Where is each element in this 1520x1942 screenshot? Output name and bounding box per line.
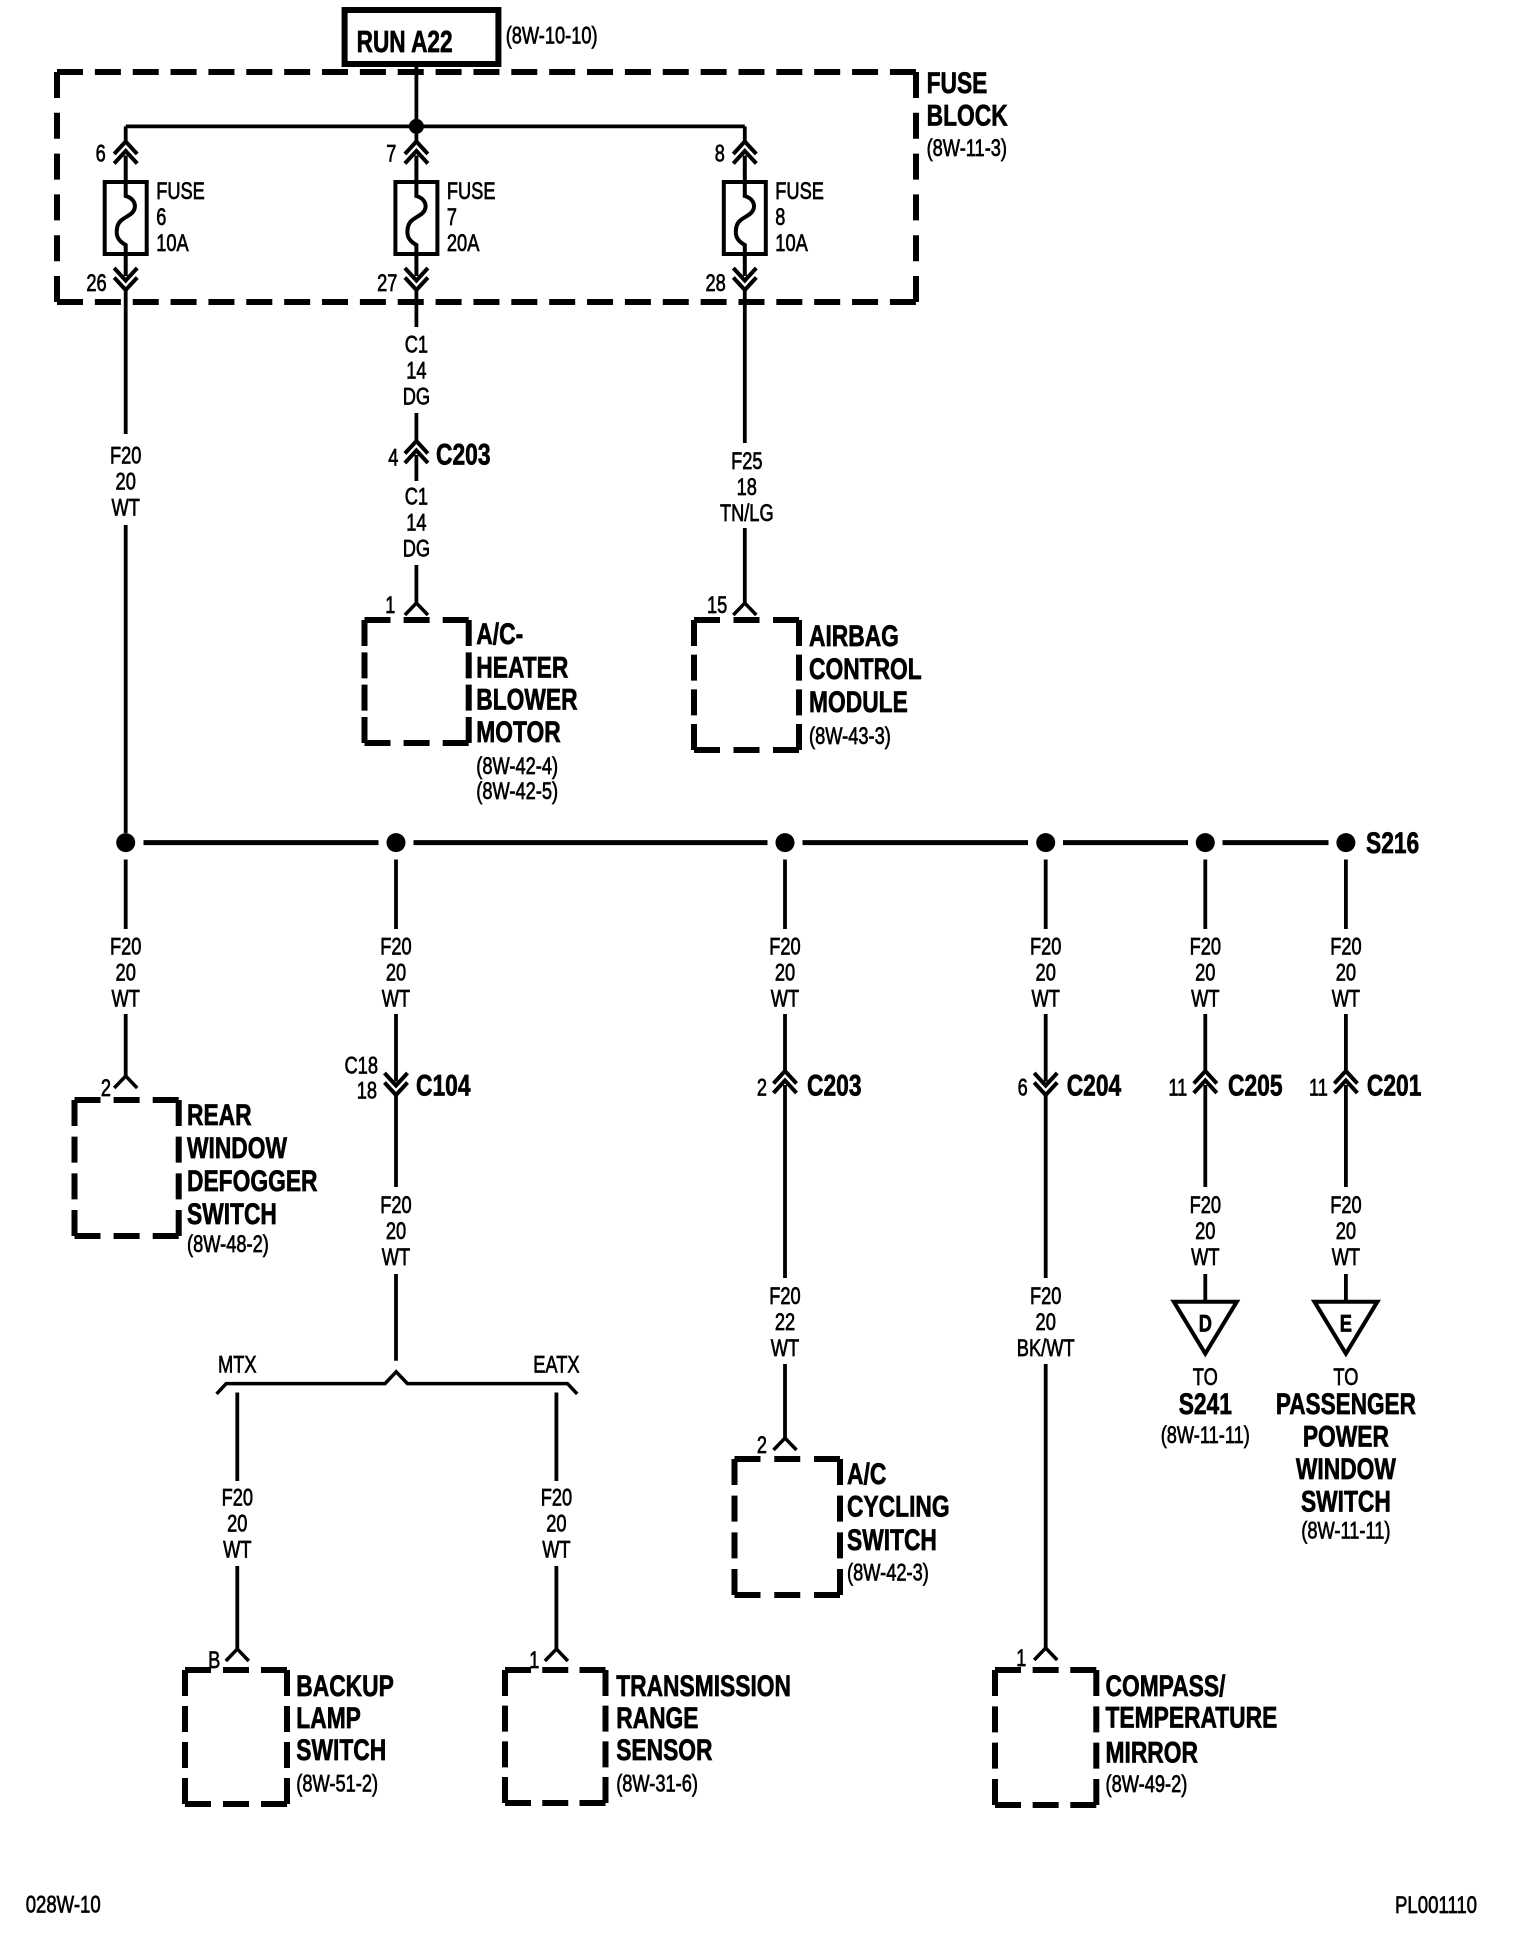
destination label TO S241 — [1161, 1364, 1250, 1449]
svg-text:20: 20 — [1036, 959, 1056, 986]
off-page connector arrow D — [1174, 1302, 1237, 1354]
connector C204 pin 6 — [1018, 1073, 1058, 1102]
junction of RUN A22 feed with internal bus — [409, 119, 424, 134]
splice S216 bus wire — [144, 840, 1329, 845]
svg-text:WT: WT — [112, 494, 141, 521]
wire label F20 20 WT (branch to C201) — [1330, 933, 1361, 1012]
svg-text:(8W-31-6): (8W-31-6) — [616, 1771, 698, 1798]
svg-text:20A: 20A — [447, 230, 480, 257]
svg-text:BACKUP: BACKUP — [296, 1670, 394, 1703]
svg-text:F25: F25 — [731, 448, 762, 475]
svg-text:28: 28 — [706, 270, 726, 297]
svg-text:20: 20 — [1336, 1218, 1356, 1245]
svg-text:D: D — [1199, 1310, 1212, 1337]
svg-text:20: 20 — [1195, 1218, 1215, 1245]
fuse F7 value label — [447, 178, 496, 257]
svg-text:F20: F20 — [1030, 1283, 1061, 1310]
svg-text:E: E — [1340, 1310, 1352, 1337]
connector C203 pin 2 (lower) — [757, 1071, 797, 1102]
wire to transmission range sensor pin 1 — [555, 1566, 559, 1649]
svg-text:C18: C18 — [345, 1053, 379, 1080]
svg-text:11: 11 — [1309, 1075, 1328, 1102]
svg-text:F20: F20 — [110, 442, 141, 469]
svg-text:14: 14 — [406, 510, 426, 537]
svg-text:6: 6 — [96, 141, 106, 168]
reference (8W-10-10) for RUN A22 — [506, 23, 598, 50]
fuse block pin 26 connector — [86, 268, 137, 297]
splice junction dot 4 on S216 — [1036, 833, 1055, 852]
svg-text:1: 1 — [385, 592, 395, 619]
connector name C104 — [416, 1069, 471, 1102]
svg-text:2: 2 — [757, 1075, 767, 1102]
connector name C203 — [436, 439, 491, 472]
backup lamp switch pin B connector — [208, 1647, 249, 1674]
rear window defogger switch label — [187, 1099, 318, 1258]
svg-text:PASSENGER: PASSENGER — [1276, 1388, 1416, 1421]
svg-text:PL001110: PL001110 — [1395, 1892, 1477, 1919]
svg-text:(8W-48-2): (8W-48-2) — [187, 1231, 269, 1258]
svg-text:WT: WT — [382, 985, 411, 1012]
svg-text:2: 2 — [101, 1075, 111, 1102]
svg-text:20: 20 — [386, 959, 406, 986]
svg-text:WT: WT — [1191, 1244, 1220, 1271]
splice junction dot 5 on S216 — [1196, 833, 1215, 852]
svg-text:26: 26 — [86, 270, 106, 297]
wire branch to C104 from S216 — [394, 860, 398, 930]
svg-text:6: 6 — [156, 204, 166, 231]
svg-text:F20: F20 — [1030, 933, 1061, 960]
svg-text:WT: WT — [1332, 985, 1361, 1012]
svg-text:FUSE: FUSE — [156, 178, 205, 205]
svg-text:DG: DG — [403, 384, 430, 411]
svg-text:20: 20 — [1336, 959, 1356, 986]
component A/C cycling switch (dashed box) — [735, 1459, 841, 1595]
svg-text:BK/WT: BK/WT — [1017, 1335, 1075, 1362]
svg-text:7: 7 — [386, 141, 396, 168]
backup lamp switch label — [296, 1670, 394, 1798]
svg-text:WT: WT — [382, 1244, 411, 1271]
svg-text:WINDOW: WINDOW — [1296, 1453, 1397, 1486]
connector C203 pin 4 — [388, 441, 428, 472]
wire below C203 (F20 22 WT) — [783, 1085, 787, 1278]
svg-text:REAR: REAR — [187, 1099, 252, 1132]
svg-text:AIRBAG: AIRBAG — [809, 620, 899, 653]
svg-text:SWITCH: SWITCH — [296, 1734, 386, 1767]
svg-text:F20: F20 — [541, 1484, 572, 1511]
svg-text:(8W-49-2): (8W-49-2) — [1106, 1771, 1188, 1798]
svg-text:F20: F20 — [769, 933, 800, 960]
svg-text:SWITCH: SWITCH — [187, 1198, 277, 1231]
svg-text:RANGE: RANGE — [616, 1702, 698, 1735]
svg-text:MIRROR: MIRROR — [1106, 1736, 1199, 1769]
svg-text:WINDOW: WINDOW — [187, 1132, 288, 1165]
compass mirror pin 1 connector — [1016, 1645, 1057, 1672]
svg-text:WT: WT — [1032, 985, 1061, 1012]
svg-text:WT: WT — [1332, 1244, 1361, 1271]
wire below C201 (F20 20 WT) — [1344, 1085, 1348, 1187]
component airbag control module (dashed box) — [694, 620, 799, 750]
wire label F20 20 WT (branch to C204) — [1030, 933, 1061, 1012]
airbag control module label — [809, 620, 922, 750]
svg-text:TN/LG: TN/LG — [720, 500, 774, 527]
svg-text:F20: F20 — [1190, 1192, 1221, 1219]
compass/temperature mirror label — [1106, 1670, 1278, 1798]
wire fuse 6 output (F20 20 WT) upper segment — [124, 290, 128, 434]
off-page connector arrow E — [1314, 1302, 1377, 1354]
fuse F7 (20A) — [395, 156, 437, 277]
wire F25 to airbag control module pin 15 — [743, 528, 747, 603]
svg-text:(8W-11-11): (8W-11-11) — [1301, 1518, 1390, 1545]
fuse F8 value label — [775, 178, 824, 257]
svg-text:18: 18 — [357, 1078, 377, 1105]
wire into connector C104 — [394, 1014, 398, 1082]
splice junction dot 2 on S216 — [387, 833, 406, 852]
label EATX — [533, 1352, 579, 1379]
svg-text:(8W-42-5): (8W-42-5) — [476, 778, 558, 805]
connector C201 pin 11 — [1309, 1071, 1357, 1102]
wire branch to C201 from S216 — [1344, 860, 1348, 930]
wire to A/C cycling switch pin 2 — [783, 1364, 787, 1438]
svg-text:C204: C204 — [1067, 1069, 1122, 1102]
svg-text:A/C: A/C — [847, 1458, 886, 1491]
svg-text:20: 20 — [116, 468, 136, 495]
wire branch to C203 from S216 — [783, 860, 787, 930]
svg-text:20: 20 — [775, 959, 795, 986]
fuse block pin 28 connector — [706, 268, 757, 297]
wire label F20 20 WT (branch to rear window defogger switch) — [110, 933, 141, 1012]
svg-text:MODULE: MODULE — [809, 686, 908, 719]
internal bus wire inside fuse block — [126, 125, 745, 129]
fuse block name label — [927, 67, 1008, 162]
svg-text:F20: F20 — [222, 1484, 253, 1511]
wire label F20 20 WT (branch to C205) — [1190, 933, 1221, 1012]
svg-text:SENSOR: SENSOR — [616, 1734, 713, 1767]
wire C1 to blower motor pin 1 — [414, 455, 418, 603]
svg-text:A/C-: A/C- — [476, 618, 523, 651]
svg-text:FUSE: FUSE — [927, 67, 988, 100]
component transmission range sensor (dashed box) — [505, 1670, 606, 1803]
svg-text:F20: F20 — [380, 933, 411, 960]
svg-text:27: 27 — [377, 270, 397, 297]
svg-text:DG: DG — [403, 536, 430, 563]
svg-text:6: 6 — [1018, 1075, 1028, 1102]
wire label F20 20 WT (transmission range sensor) — [541, 1484, 572, 1563]
svg-text:TEMPERATURE: TEMPERATURE — [1106, 1701, 1278, 1734]
svg-text:18: 18 — [737, 474, 757, 501]
svg-text:HEATER: HEATER — [476, 652, 568, 685]
splice junction dot 3 on S216 — [776, 833, 795, 852]
svg-text:RUN A22: RUN A22 — [357, 24, 453, 59]
svg-text:20: 20 — [116, 959, 136, 986]
wire fuse 8 output upper segment — [743, 290, 747, 443]
wire label F20 20 BK/WT — [1017, 1283, 1075, 1362]
svg-text:20: 20 — [386, 1218, 406, 1245]
svg-text:F20: F20 — [769, 1283, 800, 1310]
fuse block pin 7 connector — [386, 126, 428, 167]
fuse block pin 8 connector — [715, 126, 757, 167]
destination label TO PASSENGER POWER WINDOW SWITCH — [1276, 1364, 1416, 1545]
svg-text:20: 20 — [1195, 959, 1215, 986]
wire branch to rear window defogger switch from S216 — [124, 860, 128, 930]
svg-text:7: 7 — [447, 204, 457, 231]
drawing number PL001110 — [1395, 1892, 1477, 1919]
fuse block pin 27 connector — [377, 268, 428, 297]
wire down to MTX/EATX split — [394, 1274, 398, 1361]
svg-text:14: 14 — [406, 358, 426, 385]
svg-text:MTX: MTX — [218, 1352, 257, 1379]
svg-text:POWER: POWER — [1303, 1420, 1389, 1453]
splice junction dot 6 on S216 — [1336, 833, 1355, 852]
svg-text:WT: WT — [223, 1536, 252, 1563]
svg-text:F20: F20 — [380, 1192, 411, 1219]
wire branch to C205 from S216 — [1203, 860, 1207, 930]
svg-text:20: 20 — [227, 1510, 247, 1537]
transmission range sensor pin 1 connector — [529, 1647, 568, 1674]
svg-text:BLOCK: BLOCK — [927, 100, 1008, 133]
svg-text:WT: WT — [771, 985, 800, 1012]
wire label F20 20 WT (backup lamp switch) — [222, 1484, 253, 1563]
svg-text:FUSE: FUSE — [775, 178, 824, 205]
svg-text:CYCLING: CYCLING — [847, 1491, 950, 1524]
svg-text:11: 11 — [1168, 1075, 1187, 1102]
svg-text:10A: 10A — [156, 230, 189, 257]
svg-text:WT: WT — [771, 1335, 800, 1362]
svg-text:SWITCH: SWITCH — [1301, 1485, 1391, 1518]
A/C cycling switch pin 2 connector — [757, 1432, 797, 1459]
connector C104 pin C18/18 — [345, 1053, 408, 1105]
wire to compass/temperature mirror pin 1 — [1044, 1364, 1048, 1648]
wire label F20 22 WT — [769, 1283, 800, 1362]
svg-text:WT: WT — [1191, 985, 1220, 1012]
svg-text:20: 20 — [546, 1510, 566, 1537]
fuse F6 value label — [156, 178, 205, 257]
airbag control module pin 15 connector — [707, 592, 756, 619]
svg-text:F20: F20 — [1330, 1192, 1361, 1219]
blower motor pin 1 connector — [385, 592, 428, 619]
svg-text:TRANSMISSION: TRANSMISSION — [616, 1670, 791, 1703]
wire label F20 20 WT (below C201) — [1330, 1192, 1361, 1271]
connector name C201 — [1367, 1069, 1422, 1102]
wire below C204 (F20 20 BK/WT) — [1044, 1095, 1048, 1278]
svg-text:20: 20 — [1036, 1309, 1056, 1336]
svg-text:C201: C201 — [1367, 1069, 1422, 1102]
svg-text:F20: F20 — [1330, 933, 1361, 960]
svg-text:(8W-10-10): (8W-10-10) — [506, 23, 598, 50]
A/C-heater blower motor label — [476, 618, 578, 805]
label MTX — [218, 1352, 257, 1379]
wire label C1 14 DG (below C203) — [403, 484, 430, 563]
svg-text:(8W-51-2): (8W-51-2) — [296, 1771, 378, 1798]
svg-text:028W-10: 028W-10 — [26, 1892, 101, 1919]
svg-text:EATX: EATX — [533, 1352, 579, 1379]
wire label F20 20 WT (branch to C104) — [380, 933, 411, 1012]
svg-text:COMPASS/: COMPASS/ — [1106, 1670, 1226, 1703]
fuse block enclosure (dashed) — [57, 72, 916, 302]
svg-text:C205: C205 — [1228, 1069, 1283, 1102]
svg-text:FUSE: FUSE — [447, 178, 496, 205]
A/C cycling switch label — [847, 1458, 950, 1587]
fuse F6 (10A) — [105, 156, 147, 277]
svg-text:(8W-11-3): (8W-11-3) — [927, 135, 1007, 162]
MTX/EATX splice brace — [217, 1372, 578, 1394]
connector C205 pin 11 — [1168, 1071, 1216, 1102]
svg-text:C1: C1 — [405, 484, 428, 511]
svg-text:22: 22 — [775, 1309, 795, 1336]
transmission range sensor label — [616, 1670, 791, 1798]
svg-text:(8W-42-4): (8W-42-4) — [476, 753, 558, 780]
svg-text:10A: 10A — [775, 230, 808, 257]
svg-text:S216: S216 — [1366, 827, 1419, 860]
svg-text:WT: WT — [542, 1536, 571, 1563]
svg-text:BLOWER: BLOWER — [476, 683, 578, 716]
svg-text:C104: C104 — [416, 1069, 471, 1102]
component backup lamp switch (dashed box) — [185, 1670, 287, 1804]
component A/C-heater blower motor (dashed box) — [365, 620, 469, 743]
wire label F20 20 WT (fuse 6 output) — [110, 442, 141, 521]
component compass/temperature mirror (dashed box) — [995, 1670, 1096, 1805]
svg-text:S241: S241 — [1179, 1388, 1232, 1421]
svg-text:(8W-43-3): (8W-43-3) — [809, 723, 891, 750]
svg-text:(8W-42-3): (8W-42-3) — [847, 1560, 929, 1587]
wire into off-page arrow D — [1203, 1274, 1207, 1302]
splice junction dot 1 on S216 — [116, 833, 135, 852]
wire branch to C204 from S216 — [1044, 860, 1048, 930]
wire to defogger switch pin 2 — [124, 1014, 128, 1076]
wire into connector C204 — [1044, 1014, 1048, 1082]
svg-text:LAMP: LAMP — [296, 1702, 361, 1735]
wire into connector C203 (lower) — [783, 1014, 787, 1071]
power feed node RUN A22 — [345, 10, 499, 64]
wire into off-page arrow E — [1344, 1274, 1348, 1302]
wire into connector C201 — [1344, 1014, 1348, 1071]
sheet number 028W-10 — [26, 1892, 101, 1919]
wire below C104 (F20 20 WT) — [394, 1095, 398, 1187]
wire into connector C205 — [1203, 1014, 1207, 1071]
svg-text:2: 2 — [757, 1432, 767, 1459]
svg-text:DEFOGGER: DEFOGGER — [187, 1165, 318, 1198]
wire to backup lamp switch pin B — [235, 1566, 239, 1649]
svg-text:C1: C1 — [405, 332, 428, 359]
svg-text:8: 8 — [775, 204, 785, 231]
wire label F20 20 WT (below C104) — [380, 1192, 411, 1271]
connector name C205 — [1228, 1069, 1283, 1102]
svg-text:C203: C203 — [807, 1069, 862, 1102]
wire transmission range sensor branch upper — [555, 1393, 559, 1482]
splice name S216 — [1366, 827, 1419, 860]
wire label C1 14 DG (above C203) — [403, 332, 430, 411]
svg-text:8: 8 — [715, 141, 725, 168]
svg-text:F20: F20 — [110, 933, 141, 960]
wire below C205 (F20 20 WT) — [1203, 1085, 1207, 1187]
wire label F25 18 TN/LG — [720, 448, 774, 527]
wire backup lamp switch branch upper — [235, 1393, 239, 1482]
wire C1 into connector C203 — [414, 290, 418, 441]
svg-text:(8W-11-11): (8W-11-11) — [1161, 1422, 1250, 1449]
wire label F20 20 WT (below C205) — [1190, 1192, 1221, 1271]
fuse block pin 6 connector — [96, 126, 138, 167]
wire F20 down to splice S216 — [124, 525, 128, 833]
wire from RUN A22 into fuse block — [414, 64, 418, 126]
svg-text:C203: C203 — [436, 439, 491, 472]
svg-text:15: 15 — [707, 592, 727, 619]
defogger switch pin 2 connector — [101, 1075, 137, 1102]
svg-text:MOTOR: MOTOR — [476, 716, 561, 749]
component rear window defogger switch (dashed box) — [75, 1100, 179, 1236]
svg-text:4: 4 — [388, 445, 398, 472]
svg-text:CONTROL: CONTROL — [809, 653, 922, 686]
wire label F20 20 WT (branch to C203) — [769, 933, 800, 1012]
fuse F8 (10A) — [724, 156, 766, 277]
connector name C204 — [1067, 1069, 1122, 1102]
svg-text:F20: F20 — [1190, 933, 1221, 960]
connector name C203 (lower) — [807, 1069, 862, 1102]
svg-text:SWITCH: SWITCH — [847, 1524, 937, 1557]
svg-text:WT: WT — [112, 985, 141, 1012]
